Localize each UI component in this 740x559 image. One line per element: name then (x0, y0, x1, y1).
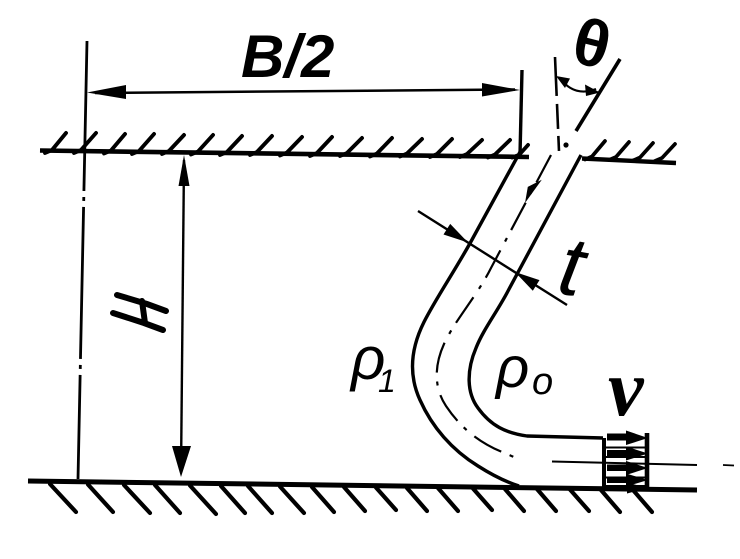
pipe outer wall (left), below ceiling, curving to floor (412, 152, 520, 486)
dimension line B/2 (horizontal) (95, 90, 515, 94)
outlet nozzle right bar (645, 433, 650, 491)
angle theta double-headed arc (560, 78, 596, 91)
svg-text:ρ: ρ (494, 335, 529, 400)
floor hatching (50, 484, 652, 514)
ceiling hatching, left segment (45, 133, 528, 158)
svg-text:1: 1 (378, 363, 396, 399)
ceiling hatching, right segment (585, 141, 675, 161)
pipe inner wall above ceiling (576, 59, 620, 131)
pipe outer wall above ceiling (also B/2 extension tick) (520, 70, 522, 155)
ceiling line, right segment (582, 159, 676, 164)
vertical dashed reference line for angle theta (555, 57, 559, 151)
pipe centerline dot above ceiling (563, 142, 568, 147)
arrowhead: t upper (points down-right at outer wall) (444, 224, 469, 243)
floor line (28, 481, 697, 490)
arrowhead: flow direction on pipe centerline (525, 180, 542, 203)
outlet nozzle left bar (602, 438, 606, 491)
dimension line t (across pipe) (418, 211, 567, 305)
arrowhead: B/2 right end (482, 83, 520, 97)
axis line: vertical dash-dot symmetry axis at left (78, 41, 87, 479)
svg-text:B/2: B/2 (241, 23, 334, 90)
arrowhead: H bottom end (172, 446, 191, 477)
label H (rotated sideways) (113, 295, 166, 330)
pipe centerline (dash-dot) through bend (437, 155, 551, 461)
arrowhead: H top end (179, 155, 190, 186)
ceiling line, left segment (40, 151, 529, 158)
outlet velocity profile arrows (607, 431, 648, 494)
svg-text:o: o (532, 361, 553, 403)
arrowhead: t lower (points up-left at inner wall) (515, 272, 540, 291)
pipe inner wall (right), below ceiling, curving to outlet (469, 155, 603, 438)
svg-text:v: v (608, 345, 645, 433)
arrowhead: B/2 left end (87, 85, 126, 99)
outlet nozzle inner horizontal lines (606, 448, 645, 487)
dimension line H (vertical) (181, 160, 184, 472)
jet centerline: horizontal through outlet, with short dash at far right (552, 462, 697, 466)
